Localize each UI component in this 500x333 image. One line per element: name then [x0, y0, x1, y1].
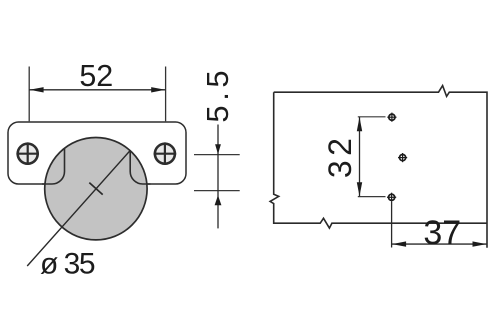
dim 32 arrowhead down [357, 182, 362, 196]
dim 5.5 leader vertical line [217, 125, 219, 229]
dim 37 arrowhead right [473, 241, 487, 246]
hinge flange plate [8, 122, 186, 184]
dim 32 dimension line [359, 117, 361, 197]
cup slot right chord and fillet [130, 150, 150, 184]
dim 32 extension line top [358, 116, 386, 118]
cup center cross mark [89, 183, 102, 195]
dim 32 extension line bottom [358, 196, 386, 198]
dim 5.5 extension line bottom [194, 190, 240, 192]
screw mark middle [398, 153, 407, 162]
dim 52 arrowhead right [151, 87, 165, 92]
dim 5.5 arrowhead up [215, 195, 222, 205]
screw mark top [387, 113, 396, 122]
dim 5.5 extension line top [194, 154, 240, 156]
cup slot left chord and fillet [42, 148, 65, 184]
screw mark bottom [387, 193, 396, 202]
screw hole right [154, 142, 177, 165]
dim 52 extension line left [28, 67, 30, 122]
svg-text:5.5: 5.5 [200, 66, 235, 123]
dia 35 leader line [27, 150, 130, 266]
screw hole left [16, 142, 39, 165]
svg-text:ø 35: ø 35 [40, 248, 95, 281]
dim 32 arrowhead up [357, 117, 362, 131]
dim 37 extension line from bottom screw [391, 202, 393, 248]
dim 52 extension line right [165, 67, 167, 122]
dim 5.5 arrowhead down [215, 144, 221, 154]
dim 52 arrowhead left [30, 87, 44, 92]
dim 37 dimension line [392, 243, 487, 245]
dim 52 dimension line [29, 89, 165, 91]
dim 37 arrowhead left [392, 241, 406, 246]
cup circle [45, 138, 147, 240]
mounting panel outline with break marks [270, 86, 487, 248]
svg-text:37: 37 [423, 214, 461, 252]
svg-text:32: 32 [322, 134, 358, 178]
svg-text:52: 52 [79, 59, 113, 93]
